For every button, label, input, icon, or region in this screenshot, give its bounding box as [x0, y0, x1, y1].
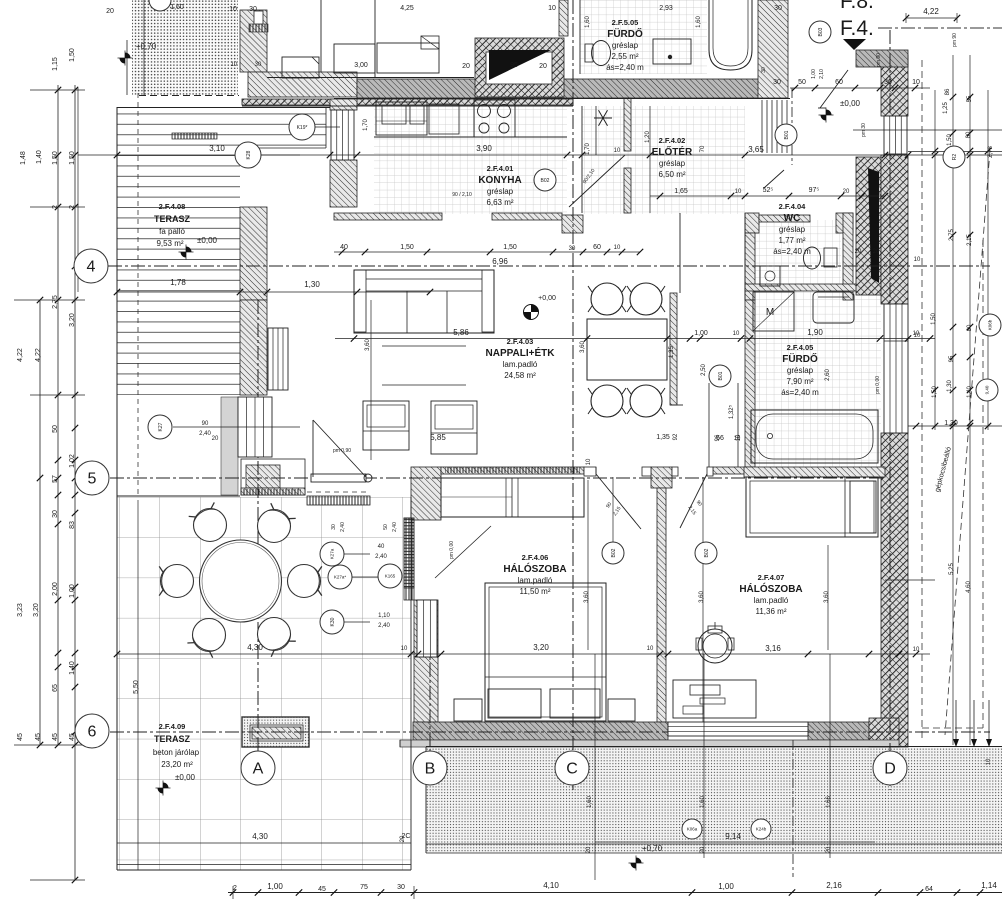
- svg-text:10: 10: [614, 148, 621, 154]
- svg-text:20: 20: [400, 835, 406, 842]
- svg-text:5,25: 5,25: [949, 563, 955, 575]
- svg-text:1,32⁵: 1,32⁵: [728, 404, 735, 419]
- svg-text:3,90: 3,90: [476, 144, 492, 153]
- svg-text:9,40: 9,40: [985, 385, 990, 394]
- svg-text:B02: B02: [704, 548, 710, 557]
- svg-text:gréslap: gréslap: [612, 41, 639, 50]
- svg-text:1,70: 1,70: [585, 143, 591, 155]
- svg-text:20: 20: [700, 846, 706, 853]
- svg-text:3,16: 3,16: [765, 644, 781, 653]
- svg-text:60: 60: [835, 79, 843, 86]
- svg-text:1,70: 1,70: [363, 119, 369, 131]
- svg-text:1,00: 1,00: [267, 882, 283, 891]
- svg-text:ás=2,40 m: ás=2,40 m: [606, 63, 644, 72]
- svg-text:20: 20: [212, 436, 219, 442]
- svg-text:40: 40: [340, 244, 348, 251]
- svg-text:fa palló: fa palló: [159, 227, 185, 236]
- svg-text:5,50: 5,50: [133, 680, 140, 694]
- svg-text:B02: B02: [611, 548, 617, 557]
- svg-text:2: 2: [52, 205, 59, 209]
- svg-text:lam.padló: lam.padló: [503, 360, 538, 369]
- svg-text:10: 10: [912, 79, 920, 86]
- svg-text:lam.padló: lam.padló: [754, 596, 789, 605]
- svg-text:10: 10: [614, 245, 621, 251]
- svg-text:HÁLÓSZOBA: HÁLÓSZOBA: [503, 562, 566, 575]
- svg-text:±0,00: ±0,00: [175, 773, 196, 782]
- svg-text:2,93: 2,93: [659, 5, 673, 12]
- svg-text:5,86: 5,86: [453, 328, 469, 337]
- svg-text:97⁵: 97⁵: [809, 187, 820, 194]
- svg-text:2,10: 2,10: [819, 69, 825, 79]
- svg-text:5: 5: [88, 471, 97, 488]
- svg-text:1,60: 1,60: [700, 796, 706, 808]
- svg-text:1,40: 1,40: [36, 150, 43, 164]
- svg-text:gréslap: gréslap: [779, 225, 806, 234]
- svg-text:1,20: 1,20: [645, 131, 651, 143]
- svg-text:pm 0,90: pm 0,90: [333, 448, 351, 454]
- svg-text:10: 10: [734, 436, 741, 442]
- svg-text:45: 45: [318, 886, 326, 893]
- svg-text:57: 57: [52, 475, 59, 483]
- svg-text:20: 20: [106, 8, 114, 15]
- svg-text:2.F.4.09: 2.F.4.09: [159, 722, 186, 731]
- svg-text:2,78: 2,78: [988, 146, 994, 158]
- svg-text:1,15: 1,15: [52, 57, 59, 71]
- svg-text:+0,00: +0,00: [538, 295, 556, 302]
- svg-text:HÁLÓSZOBA: HÁLÓSZOBA: [739, 582, 802, 595]
- svg-text:ás=2,40 m: ás=2,40 m: [773, 247, 811, 256]
- svg-text:30: 30: [52, 510, 59, 518]
- svg-text:FÜRDŐ: FÜRDŐ: [607, 27, 643, 40]
- svg-text:2,40: 2,40: [199, 431, 211, 437]
- svg-text:K27a: K27a: [330, 548, 335, 559]
- svg-text:1,60: 1,60: [170, 4, 184, 11]
- svg-text:gréslap: gréslap: [659, 159, 686, 168]
- svg-text:20: 20: [539, 63, 547, 70]
- svg-text:M: M: [766, 307, 774, 318]
- svg-text:3,65: 3,65: [748, 145, 764, 154]
- svg-text:9,53 m²: 9,53 m²: [156, 239, 183, 248]
- svg-text:1,60: 1,60: [696, 16, 702, 28]
- svg-text:C: C: [566, 761, 578, 778]
- svg-text:K27a*: K27a*: [334, 575, 347, 580]
- svg-text:1,77 m²: 1,77 m²: [778, 236, 805, 245]
- svg-text:3,60: 3,60: [584, 591, 590, 603]
- svg-text:A: A: [253, 761, 264, 778]
- svg-text:1,35: 1,35: [669, 346, 675, 358]
- svg-text:30: 30: [884, 79, 892, 86]
- svg-text:FÜRDŐ: FÜRDŐ: [782, 352, 818, 365]
- svg-text:beton járólap: beton járólap: [153, 748, 200, 757]
- svg-text:pm 90: pm 90: [952, 33, 958, 47]
- svg-text:30: 30: [761, 67, 767, 73]
- svg-text:2,15: 2,15: [967, 234, 973, 246]
- svg-text:30: 30: [773, 79, 781, 86]
- svg-text:2.F.4.01: 2.F.4.01: [487, 164, 514, 173]
- svg-text:1,90: 1,90: [807, 328, 823, 337]
- svg-text:90: 90: [202, 421, 209, 427]
- svg-text:52⁵: 52⁵: [763, 187, 774, 194]
- svg-text:B01: B01: [718, 371, 724, 380]
- svg-text:3,60: 3,60: [699, 591, 705, 603]
- svg-text:50: 50: [52, 425, 59, 433]
- svg-text:1,14: 1,14: [981, 881, 997, 890]
- svg-text:K165: K165: [385, 574, 396, 579]
- svg-text:45: 45: [52, 733, 59, 741]
- svg-text:+0,70: +0,70: [136, 42, 157, 51]
- svg-text:WC: WC: [784, 213, 801, 224]
- svg-text:20: 20: [826, 846, 832, 853]
- svg-text:gréslap: gréslap: [487, 187, 514, 196]
- svg-text:F.8.: F.8.: [840, 0, 874, 13]
- svg-text:1,50: 1,50: [931, 313, 937, 325]
- svg-text:1,48: 1,48: [20, 151, 27, 165]
- svg-text:60: 60: [593, 244, 601, 251]
- svg-text:11,36 m²: 11,36 m²: [756, 607, 787, 616]
- svg-text:2,16: 2,16: [826, 881, 842, 890]
- svg-text:64: 64: [925, 886, 933, 893]
- svg-text:+0,70: +0,70: [642, 844, 663, 853]
- svg-text:95: 95: [510, 62, 518, 69]
- svg-text:30: 30: [774, 5, 782, 12]
- svg-text:B01: B01: [784, 130, 790, 139]
- svg-text:2,40: 2,40: [392, 522, 398, 532]
- svg-text:2.F.4.04: 2.F.4.04: [779, 202, 807, 211]
- svg-text:4,22: 4,22: [35, 348, 42, 362]
- svg-text:1,00: 1,00: [69, 584, 76, 598]
- svg-text:K27: K27: [158, 422, 164, 431]
- svg-text:20: 20: [843, 189, 850, 195]
- svg-text:30: 30: [249, 6, 257, 13]
- svg-text:NAPPALI+ÉTK: NAPPALI+ÉTK: [486, 346, 556, 359]
- svg-text:ás=2,40 m: ás=2,40 m: [781, 388, 819, 397]
- svg-text:20: 20: [462, 63, 470, 70]
- svg-text:TERASZ: TERASZ: [154, 214, 191, 224]
- svg-text:pm 90: pm 90: [876, 53, 882, 67]
- svg-text:lam.padló: lam.padló: [518, 576, 553, 585]
- svg-text:56: 56: [716, 435, 724, 442]
- svg-text:10: 10: [647, 646, 654, 652]
- svg-text:24,58 m²: 24,58 m²: [504, 371, 536, 380]
- svg-text:1,40: 1,40: [69, 661, 76, 675]
- svg-text:3,60: 3,60: [580, 341, 586, 353]
- svg-text:4,22: 4,22: [17, 348, 24, 362]
- svg-text:±0,00: ±0,00: [197, 236, 218, 245]
- svg-text:20: 20: [855, 249, 862, 255]
- svg-text:2.F.4.03: 2.F.4.03: [507, 337, 534, 346]
- svg-text:10: 10: [548, 5, 556, 12]
- svg-text:6,63 m²: 6,63 m²: [486, 198, 513, 207]
- svg-text:gréslap: gréslap: [787, 366, 814, 375]
- svg-text:2.F.4.02: 2.F.4.02: [659, 136, 686, 145]
- svg-text:2,00: 2,00: [52, 582, 59, 596]
- svg-text:70: 70: [700, 145, 706, 152]
- svg-text:K30: K30: [330, 617, 336, 626]
- svg-text:2,40: 2,40: [340, 522, 346, 532]
- svg-text:1,10: 1,10: [378, 613, 390, 619]
- svg-text:1,35: 1,35: [656, 434, 670, 441]
- svg-text:1,50: 1,50: [503, 244, 517, 251]
- svg-text:45: 45: [69, 733, 76, 741]
- svg-text:B03: B03: [818, 27, 824, 36]
- svg-text:2,75: 2,75: [949, 229, 955, 241]
- svg-text:20: 20: [586, 846, 592, 853]
- svg-text:1,00: 1,00: [811, 69, 817, 79]
- svg-text:10: 10: [913, 647, 920, 653]
- svg-text:4,10: 4,10: [543, 881, 559, 890]
- svg-text:86: 86: [945, 88, 951, 95]
- svg-text:2,75: 2,75: [52, 295, 59, 309]
- svg-text:2,55 m²: 2,55 m²: [611, 52, 638, 61]
- svg-text:45: 45: [17, 733, 24, 741]
- svg-text:23,20 m²: 23,20 m²: [161, 760, 193, 769]
- svg-text:R2: R2: [952, 154, 958, 161]
- svg-text:K24b: K24b: [756, 827, 767, 832]
- svg-text:1,02: 1,02: [69, 454, 76, 468]
- svg-text:±0,00: ±0,00: [840, 99, 861, 108]
- svg-text:4,60: 4,60: [966, 581, 972, 593]
- svg-text:10: 10: [914, 333, 921, 339]
- svg-text:4,25: 4,25: [400, 5, 414, 12]
- svg-text:65: 65: [52, 684, 59, 692]
- svg-text:TERASZ: TERASZ: [154, 734, 191, 744]
- svg-text:3,20: 3,20: [69, 313, 76, 327]
- svg-text:1,30: 1,30: [304, 280, 320, 289]
- svg-text:55: 55: [967, 95, 973, 102]
- svg-text:2,40: 2,40: [378, 623, 390, 629]
- svg-text:80: 80: [967, 324, 973, 331]
- svg-text:pm 30: pm 30: [861, 123, 867, 137]
- svg-text:1,50: 1,50: [52, 151, 59, 165]
- svg-text:K28: K28: [246, 150, 252, 159]
- svg-text:D: D: [884, 761, 896, 778]
- svg-text:40: 40: [378, 544, 385, 550]
- svg-text:4,30: 4,30: [247, 643, 263, 652]
- svg-text:95: 95: [949, 355, 955, 362]
- svg-text:2.F.4.05: 2.F.4.05: [787, 343, 814, 352]
- svg-text:10: 10: [586, 458, 592, 465]
- svg-text:2,50: 2,50: [701, 364, 707, 376]
- svg-text:6,50 m²: 6,50 m²: [658, 170, 685, 179]
- svg-text:30: 30: [569, 246, 576, 252]
- svg-text:6: 6: [88, 724, 97, 741]
- svg-text:1,66: 1,66: [826, 796, 832, 808]
- svg-text:3,00: 3,00: [354, 62, 368, 69]
- svg-text:10: 10: [231, 62, 238, 68]
- svg-text:4: 4: [87, 259, 96, 276]
- svg-text:4,22: 4,22: [923, 7, 939, 16]
- svg-text:1,50: 1,50: [69, 151, 76, 165]
- svg-text:3,10: 3,10: [209, 144, 225, 153]
- svg-text:4,30: 4,30: [252, 832, 268, 841]
- svg-text:2.F.4.07: 2.F.4.07: [758, 573, 785, 582]
- svg-text:75: 75: [360, 884, 368, 891]
- svg-text:1,25: 1,25: [943, 102, 949, 114]
- svg-text:90 / 2,10: 90 / 2,10: [452, 192, 472, 198]
- svg-text:1,50: 1,50: [932, 386, 938, 398]
- svg-text:3,23: 3,23: [17, 603, 24, 617]
- svg-text:30: 30: [397, 884, 405, 891]
- svg-text:3,60: 3,60: [365, 339, 371, 351]
- svg-text:pm 0,00: pm 0,00: [875, 376, 881, 394]
- svg-text:2.F.5.05: 2.F.5.05: [612, 18, 639, 27]
- svg-text:F.4.: F.4.: [840, 17, 874, 40]
- svg-text:2,40: 2,40: [375, 554, 387, 560]
- svg-text:83: 83: [69, 521, 76, 529]
- svg-text:1,00: 1,00: [694, 330, 708, 337]
- svg-text:45: 45: [35, 733, 42, 741]
- svg-text:10: 10: [986, 758, 992, 765]
- svg-text:1,60: 1,60: [587, 796, 593, 808]
- svg-text:9,14: 9,14: [725, 832, 741, 841]
- svg-text:3,20: 3,20: [33, 603, 40, 617]
- svg-text:3,60: 3,60: [824, 591, 830, 603]
- svg-text:30: 30: [255, 62, 262, 68]
- svg-text:20: 20: [873, 249, 880, 255]
- svg-text:B: B: [425, 761, 436, 778]
- svg-text:10: 10: [914, 257, 921, 263]
- svg-text:1,30: 1,30: [944, 420, 958, 427]
- svg-text:pm 0,00: pm 0,00: [449, 541, 455, 559]
- svg-text:80: 80: [966, 131, 972, 138]
- svg-text:5,85: 5,85: [430, 433, 446, 442]
- svg-text:1,50: 1,50: [947, 134, 953, 146]
- svg-text:50: 50: [383, 524, 389, 530]
- svg-text:2,60: 2,60: [825, 369, 831, 381]
- svg-text:1,50: 1,50: [69, 48, 76, 62]
- svg-text:1,50: 1,50: [400, 244, 414, 251]
- svg-text:1,78: 1,78: [170, 278, 186, 287]
- svg-text:11,50 m²: 11,50 m²: [520, 587, 551, 596]
- svg-text:92: 92: [673, 433, 679, 440]
- svg-text:ELŐTÉR: ELŐTÉR: [652, 145, 693, 158]
- svg-text:10: 10: [735, 189, 742, 195]
- svg-text:1,60: 1,60: [585, 16, 591, 28]
- svg-text:30: 30: [331, 524, 337, 530]
- svg-text:KONYHA: KONYHA: [478, 175, 521, 186]
- svg-text:10: 10: [401, 646, 408, 652]
- svg-text:2.F.4.06: 2.F.4.06: [522, 553, 549, 562]
- svg-text:1,65: 1,65: [674, 188, 688, 195]
- svg-text:7,90 m²: 7,90 m²: [786, 377, 813, 386]
- svg-text:1,00: 1,00: [718, 882, 734, 891]
- svg-text:10: 10: [229, 6, 237, 13]
- svg-text:1,40: 1,40: [967, 386, 973, 398]
- svg-text:6,96: 6,96: [492, 257, 508, 266]
- svg-text:1,30: 1,30: [947, 380, 953, 392]
- svg-text:3,20: 3,20: [533, 643, 549, 652]
- svg-text:B02: B02: [541, 178, 550, 184]
- svg-text:K06b: K06b: [988, 319, 993, 330]
- svg-text:50: 50: [798, 79, 806, 86]
- svg-text:2: 2: [69, 205, 76, 209]
- svg-text:K19*: K19*: [297, 125, 308, 131]
- svg-text:K06a: K06a: [687, 827, 698, 832]
- svg-text:2.F.4.08: 2.F.4.08: [159, 202, 186, 211]
- svg-text:2: 2: [233, 885, 237, 892]
- svg-text:10: 10: [733, 331, 740, 337]
